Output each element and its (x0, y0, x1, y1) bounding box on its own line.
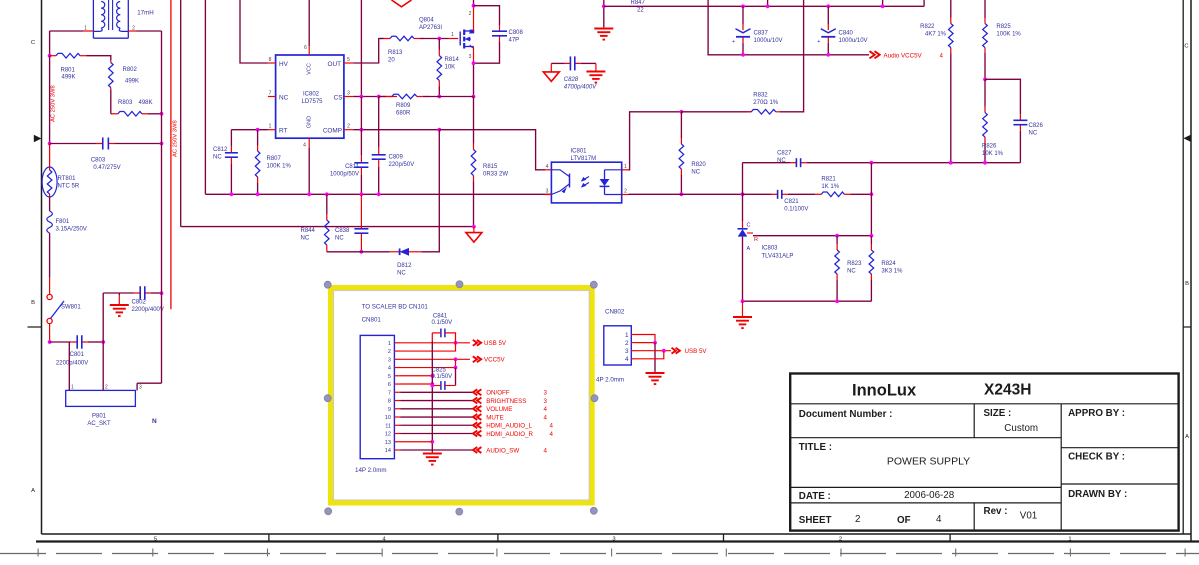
svg-text:V01: V01 (1020, 511, 1037, 522)
capacitor C840 1000u/10V (827, 6, 829, 24)
GND bus (205, 193, 551, 195)
earth ground below R847 wire (603, 27, 605, 29)
resistor R814 10K (438, 39, 440, 50)
wire R832 up to +5V (cut) (780, 0, 804, 112)
svg-text:BRIGHTNESS: BRIGHTNESS (486, 398, 526, 405)
svg-text:11: 11 (385, 423, 391, 429)
svg-text:22: 22 (637, 8, 644, 14)
thermistor RT801 NTC 5R (42, 167, 57, 197)
svg-text:1: 1 (1068, 536, 1071, 542)
COMP net wire (353, 129, 439, 131)
svg-text:4: 4 (544, 406, 548, 413)
svg-text:LTV817M: LTV817M (571, 156, 597, 162)
svg-text:C841: C841 (433, 313, 448, 319)
svg-text:C808: C808 (509, 30, 524, 36)
title block dividers (790, 403, 1178, 405)
svg-text:IC803: IC803 (762, 246, 779, 252)
node C840 bottom (826, 53, 830, 57)
wire C809 branch down (378, 97, 380, 148)
snubber Y-cap C828 4700p/400V (551, 62, 564, 64)
node pin3 junction (454, 357, 458, 361)
RT net wire (231, 129, 268, 131)
COMP return wire with D812 (327, 251, 390, 253)
svg-text:499K: 499K (125, 79, 139, 85)
IC802 pin 8 HV stub (268, 62, 276, 64)
svg-text:0.1/100V: 0.1/100V (784, 207, 808, 213)
wire CN801 pin5 to gnd rail (401, 375, 433, 377)
svg-text:3.15A/250V: 3.15A/250V (56, 227, 87, 233)
node R803 right junction (160, 112, 164, 116)
svg-text:C837: C837 (754, 31, 769, 37)
svg-text:R822: R822 (920, 24, 935, 30)
svg-text:R807: R807 (267, 156, 282, 162)
ruler tick zone 3/2 (723, 534, 725, 542)
svg-text:C826: C826 (1029, 123, 1044, 129)
sheet border right outer (1190, 0, 1192, 542)
node C803 left junction (48, 142, 52, 146)
svg-text:+: + (732, 39, 735, 45)
wire choke pin2 to right rail (136, 30, 161, 32)
wire OUT to R813 corner (353, 39, 382, 64)
wire CN801 pin14 AUDIO_SW (401, 449, 474, 451)
node C812 on bus (230, 192, 234, 196)
node drain top (472, 4, 476, 8)
node R820 bottom (680, 192, 684, 196)
right border zone tick (1183, 326, 1191, 328)
node R815 primary ground (472, 225, 476, 229)
wire F801 to SW801 (49, 233, 51, 278)
svg-text:3: 3 (347, 91, 350, 97)
node C825 gnd (430, 384, 434, 388)
IC802 pin 1 RT stub (268, 129, 276, 131)
svg-text:0.47/275V: 0.47/275V (93, 165, 120, 171)
fold arrow right (1183, 135, 1191, 142)
svg-text:R: R (754, 237, 758, 243)
svg-text:D812: D812 (397, 263, 412, 269)
wire R802 to R803 (110, 90, 112, 114)
svg-text:3: 3 (546, 189, 549, 195)
svg-text:R802: R802 (123, 67, 138, 73)
svg-text:VOLUME: VOLUME (486, 406, 512, 413)
svg-text:3: 3 (625, 348, 629, 355)
svg-text:0.1/50V: 0.1/50V (432, 320, 453, 326)
wire IC801 pin1 up to R832 net (629, 112, 682, 170)
power symbol fragment (cut at top) (392, 0, 412, 7)
svg-text:IC801: IC801 (571, 149, 588, 155)
svg-text:Audio VCC5V: Audio VCC5V (884, 52, 923, 59)
svg-text:C: C (31, 40, 35, 46)
fold arrow left (34, 135, 42, 143)
svg-text:2: 2 (469, 11, 472, 17)
svg-text:1: 1 (624, 164, 627, 170)
capacitor C827 NC (743, 162, 791, 164)
svg-text:10K: 10K (445, 65, 456, 71)
svg-text:2: 2 (388, 349, 391, 355)
svg-text:C809: C809 (389, 155, 404, 161)
svg-text:3: 3 (612, 536, 615, 542)
capacitor C811 1000p/50V (360, 155, 362, 163)
ground tap of C802 line (118, 293, 120, 295)
node R823 top (835, 234, 839, 238)
wire CN801 pin4 (401, 359, 456, 367)
wire CN801 pin1 USB5V (401, 342, 471, 344)
svg-text:NC: NC (335, 236, 344, 242)
wire P801 pin2 vertical (102, 293, 104, 390)
node R814 bottom on CS (437, 95, 441, 99)
outer ruler dashes (cut off at page bottom) (0, 553, 1199, 555)
svg-text:5: 5 (388, 374, 391, 380)
svg-text:3: 3 (469, 54, 472, 60)
wire CN802 pin2 (637, 342, 655, 344)
svg-text:P801: P801 (92, 414, 107, 420)
resistor R825 100K 1% (984, 0, 986, 18)
node R847 net ground tap (602, 4, 606, 8)
svg-text:C812: C812 (213, 147, 228, 153)
svg-text:CN802: CN802 (605, 309, 625, 316)
svg-text:POWER SUPPLY: POWER SUPPLY (887, 456, 970, 468)
wire drain to top (473, 0, 475, 6)
svg-text:270Ω 1%: 270Ω 1% (753, 100, 779, 106)
IC801 pin 1 stub (622, 169, 629, 171)
svg-text:R820: R820 (691, 162, 706, 168)
wire HV feed vertical (240, 0, 268, 63)
node source CS junction (472, 95, 476, 99)
svg-text:4K7 1%: 4K7 1% (925, 32, 947, 38)
R847 22 net wire (604, 5, 924, 7)
svg-text:14P 2.0mm: 14P 2.0mm (355, 467, 387, 474)
svg-text:RT801: RT801 (58, 176, 77, 182)
node C837 bottom (741, 53, 745, 57)
wire A corner up at right (923, 0, 925, 6)
wire COMP to IC801 pin4 (439, 130, 545, 170)
node C821 left (741, 192, 745, 196)
capacitor C838 NC (360, 194, 362, 222)
svg-text:SW801: SW801 (61, 305, 81, 311)
svg-text:VCC5V: VCC5V (484, 357, 506, 364)
ruler tick zone 5/4 (268, 534, 270, 542)
node C802 right junction (160, 291, 164, 295)
vertical feed to Audio VCC5V branch (708, 0, 869, 55)
node COMP R814 line (437, 128, 441, 132)
svg-text:C801: C801 (70, 352, 85, 358)
svg-text:2200p/400V: 2200p/400V (56, 361, 88, 367)
node R823 bottom (835, 299, 839, 303)
resistor R803 498K (111, 113, 112, 115)
wire SW801 to C801 (49, 324, 51, 342)
svg-text:C825: C825 (432, 368, 447, 374)
svg-text:A: A (31, 488, 35, 494)
svg-text:C827: C827 (777, 151, 792, 157)
svg-text:2: 2 (347, 124, 350, 130)
up stub at 882.6 (882, 0, 884, 6)
svg-text:OF: OF (897, 515, 911, 526)
node source/C808 (472, 61, 476, 65)
svg-text:A: A (747, 246, 751, 252)
svg-text:2200p/400V: 2200p/400V (132, 307, 164, 313)
IC801 pin 4 stub (545, 169, 551, 171)
svg-text:+: + (817, 39, 820, 45)
node C837 top (741, 4, 745, 8)
resistor R802 499K (110, 60, 112, 63)
svg-text:10: 10 (385, 415, 391, 421)
resistor R832 270 1% (747, 111, 751, 113)
svg-text:R809: R809 (396, 103, 411, 109)
svg-text:2: 2 (625, 340, 629, 347)
node R807 on bus (256, 192, 260, 196)
svg-text:1000u/10V: 1000u/10V (754, 38, 783, 44)
switch SW801 (47, 294, 52, 299)
svg-text:1: 1 (451, 32, 454, 38)
node R801 left junction (48, 54, 52, 58)
wire to R832 (681, 111, 751, 113)
node R825 bottom (983, 77, 987, 81)
node CS C809 branch (377, 95, 381, 99)
node C803 right junction (160, 142, 164, 146)
wire CN802 gnd down (654, 343, 656, 372)
svg-text:1: 1 (269, 124, 272, 130)
CS red segment to R809 (382, 96, 397, 98)
svg-text:HDMI_AUDIO_L: HDMI_AUDIO_L (486, 423, 532, 430)
wire left rail R801 to C803 (49, 56, 51, 144)
svg-text:2: 2 (105, 385, 108, 391)
IC802 pin 6 VCC stub (308, 46, 310, 55)
choke pin 1 (84, 30, 94, 32)
svg-text:DATE :: DATE : (799, 491, 831, 502)
svg-text:A: A (1185, 434, 1189, 440)
IC802 pin 4 GND stub (308, 138, 310, 148)
svg-text:B: B (1185, 281, 1189, 287)
resistor R824 3K3 1% (870, 236, 872, 244)
svg-text:499K: 499K (62, 75, 76, 81)
capacitor C808 47P (499, 25, 501, 31)
capacitor C841 0.1/50V (432, 332, 438, 334)
svg-text:F801: F801 (56, 219, 70, 225)
svg-text:NC: NC (1029, 131, 1038, 137)
svg-text:C838: C838 (335, 228, 350, 234)
svg-text:2006-06-28: 2006-06-28 (904, 490, 955, 501)
C826 branch (985, 79, 1020, 106)
connector CN802 body (604, 326, 632, 365)
wire R801 to R802 (87, 56, 111, 60)
wire left rail C803 to RT801 (49, 144, 51, 168)
capacitor C802 2200p/400V (103, 292, 134, 294)
CN802 pin stubs (631, 334, 637, 336)
svg-text:Document Number :: Document Number : (799, 409, 893, 420)
svg-text:8: 8 (269, 57, 272, 63)
node R821 right (870, 192, 874, 196)
left border zone tick (28, 326, 42, 328)
IC802 pin 2 COMP stub (344, 129, 353, 131)
svg-text:680R: 680R (396, 111, 411, 117)
svg-text:4: 4 (546, 164, 549, 170)
svg-text:R826: R826 (982, 144, 997, 150)
capacitor C809 220p/50V (378, 147, 380, 155)
node C801 left junction (48, 340, 52, 344)
svg-text:47P: 47P (509, 38, 520, 44)
capacitor C812 NC (230, 130, 232, 144)
wire D812 to COMP vertical (421, 130, 439, 252)
svg-text:0R33 2W: 0R33 2W (483, 172, 508, 178)
svg-text:AC_SKT: AC_SKT (87, 421, 111, 427)
svg-text:C803: C803 (91, 158, 106, 164)
node pin13 gnd (430, 440, 434, 444)
wire vertical1 COMP to C811 (360, 97, 362, 130)
svg-text:17mH: 17mH (137, 10, 154, 17)
svg-text:4700p/400V: 4700p/400V (564, 85, 597, 91)
capacitor C825 0.1/50V (440, 381, 442, 390)
wire vertical to ground bus (x=180.7) (180, 0, 182, 227)
svg-text:4: 4 (544, 447, 548, 454)
resistor R821 1K 1% (788, 193, 815, 195)
svg-text:DRAWN BY :: DRAWN BY : (1068, 489, 1127, 500)
svg-text:7: 7 (388, 390, 391, 396)
svg-text:C840: C840 (839, 31, 854, 37)
svg-text:AC 250V 3W8: AC 250V 3W8 (50, 85, 56, 122)
node IC802 GND on bus (307, 192, 311, 196)
wire CN801 pin13 (401, 441, 433, 443)
svg-text:6: 6 (304, 45, 307, 51)
resistor R822 4K7 1% (950, 0, 952, 16)
svg-text:R824: R824 (881, 261, 896, 267)
svg-text:5: 5 (154, 536, 157, 542)
wire pin4 to C825 (455, 368, 457, 386)
svg-text:100K 1%: 100K 1% (267, 164, 292, 170)
svg-text:N: N (152, 418, 157, 425)
resistor R823 NC (836, 236, 838, 244)
earth ground CN802 (654, 372, 656, 374)
choke pin 2 (128, 30, 136, 32)
up stub at 767.6 (767, 0, 769, 6)
op IC801 LTV817M optocoupler box (551, 162, 621, 203)
resistor R807 100K 1% (257, 130, 259, 145)
svg-text:4: 4 (625, 356, 629, 363)
svg-text:3: 3 (544, 398, 548, 405)
svg-text:220p/50V: 220p/50V (389, 162, 415, 168)
earth ground C828 right (595, 63, 597, 66)
resistor R813 20 (380, 38, 384, 40)
shunt regulator IC803 TLV431ALP (742, 194, 744, 221)
IC801 light arrows (582, 177, 590, 182)
connector P801 AC_SKT (66, 390, 136, 406)
svg-text:100K 1%: 100K 1% (996, 32, 1021, 38)
title block outer frame (790, 374, 1178, 531)
svg-text:Q804: Q804 (419, 18, 434, 24)
svg-text:R801: R801 (61, 68, 76, 74)
svg-text:4: 4 (940, 52, 944, 59)
earth ground CN801 (431, 452, 433, 454)
svg-text:R823: R823 (847, 261, 862, 267)
resistor R815 0R33 2W (473, 97, 475, 141)
svg-text:USB 5V: USB 5V (685, 348, 708, 355)
svg-text:C802: C802 (132, 300, 147, 306)
svg-text:1: 1 (71, 385, 74, 391)
svg-text:NC: NC (213, 155, 222, 161)
upper feedback wire (871, 162, 1020, 164)
svg-text:IC802: IC802 (303, 92, 320, 98)
svg-text:3: 3 (388, 357, 391, 363)
svg-text:8: 8 (388, 399, 391, 405)
svg-text:2: 2 (855, 514, 860, 525)
vertical tie 871.4 (870, 163, 872, 236)
snubber wire to C808 (474, 6, 500, 25)
svg-text:14: 14 (385, 448, 391, 454)
svg-text:InnoLux: InnoLux (852, 382, 917, 400)
op IC802 LD7575 PWM controller box (276, 55, 344, 138)
wire left rail down (49, 31, 51, 56)
svg-text:R832: R832 (753, 93, 768, 99)
reference wire to R823/R824 (753, 235, 871, 237)
svg-text:10K 1%: 10K 1% (982, 151, 1004, 157)
CN801 signal wires pins 7-12 (401, 391, 474, 393)
svg-text:NC: NC (777, 158, 786, 164)
svg-text:AUDIO_SW: AUDIO_SW (486, 447, 519, 454)
node R822 bottom (949, 161, 953, 165)
wire CN802 pin1 (637, 335, 655, 343)
net arrow Audio VCC5V (870, 51, 875, 58)
resistor R844 NC (325, 192, 329, 196)
IC801 pin 2 stub (622, 194, 629, 196)
capacitor C821 0.1/100V (743, 193, 772, 195)
yellow highlight box (331, 288, 592, 503)
wire CN802 pin3 USB5V (637, 350, 671, 352)
wire OUT vertical from top (360, 0, 362, 97)
node C838 bottom (360, 250, 364, 254)
wire vertical to GND bus corner (x=205.4) (204, 0, 206, 194)
svg-text:9: 9 (388, 407, 391, 413)
svg-text:NTC 5R: NTC 5R (58, 184, 80, 190)
wire transformer rail down to P801 pin3 (161, 31, 163, 383)
node RT R807 junction (256, 128, 260, 132)
sheet border bottom (42, 533, 1191, 535)
svg-text:7: 7 (269, 91, 272, 97)
svg-text:1K 1%: 1K 1% (821, 184, 839, 190)
svg-text:4: 4 (550, 431, 554, 438)
svg-text:R813: R813 (388, 50, 403, 56)
transistor Q804 AP2763I N-MOSFET (459, 32, 461, 46)
svg-text:12: 12 (385, 432, 391, 438)
svg-text:1000u/10V: 1000u/10V (839, 38, 868, 44)
svg-text:OUT: OUT (328, 61, 342, 68)
net arrow USB 5V CN802 (672, 348, 676, 354)
svg-text:B: B (31, 300, 35, 306)
common-mode choke LF801 17mH (cut off at top) (92, 0, 94, 38)
svg-text:20: 20 (388, 58, 395, 64)
svg-text:LD7575: LD7575 (301, 99, 323, 105)
svg-text:COMP: COMP (323, 128, 342, 135)
svg-text:3: 3 (544, 390, 548, 397)
capacitor C826 NC (1019, 106, 1021, 114)
node pin1 junction (454, 341, 458, 345)
CN801 ground rail (431, 333, 433, 341)
primary ground wire (181, 226, 474, 228)
CN801 pin stubs (394, 342, 400, 344)
wire P801 pin1 up (68, 342, 70, 390)
anode ground wire (743, 300, 872, 302)
IC802 pin 3 CS stub (344, 96, 353, 98)
wire CN802 pin4 (637, 351, 664, 359)
border ruler line (36, 540, 1199, 542)
svg-text:AC 250V 3W8: AC 250V 3W8 (172, 120, 178, 157)
svg-text:SHEET: SHEET (799, 515, 832, 526)
wire R809 to source line (430, 96, 474, 98)
earth ground IC803 anode (742, 301, 744, 308)
feedback wire IC801 pin2 (629, 193, 743, 195)
svg-text:VCC: VCC (306, 63, 312, 75)
fuse F801 3.15A/250V (47, 211, 53, 233)
svg-text:TITLE :: TITLE : (799, 442, 832, 453)
svg-text:GND: GND (306, 116, 312, 128)
svg-text:R825: R825 (996, 24, 1011, 30)
